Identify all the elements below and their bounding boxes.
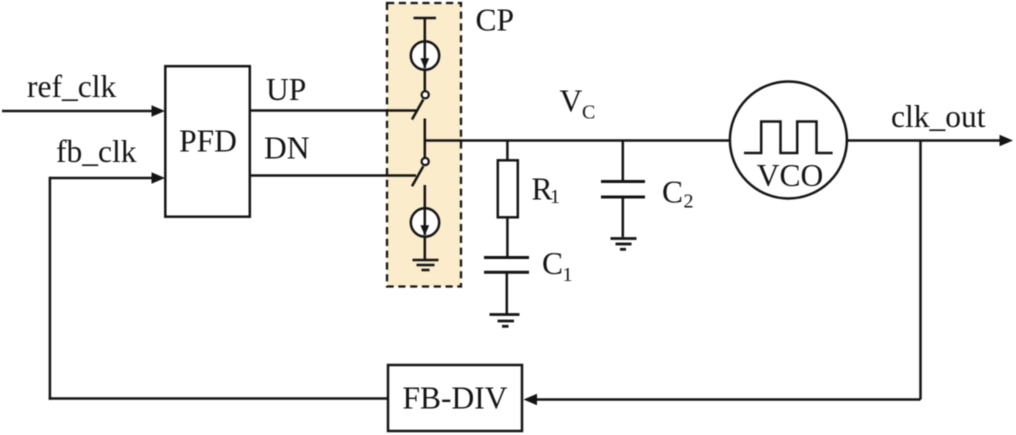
ground (C2)	[611, 239, 637, 250]
wire UP	[250, 109, 416, 112]
svg-text:V: V	[560, 84, 583, 119]
svg-text:fb_clk: fb_clk	[56, 134, 137, 169]
wire DN	[250, 174, 416, 177]
label R1	[532, 172, 561, 209]
svg-text:DN: DN	[264, 131, 310, 166]
supply rail T-bar	[414, 18, 437, 42]
svg-text:ref_clk: ref_clk	[27, 69, 116, 104]
VCO square-wave symbol	[744, 122, 833, 154]
wire feedback vertical right	[919, 141, 922, 400]
label Vc	[560, 84, 596, 124]
capacitor C1	[484, 258, 529, 273]
current source I1 (top)	[411, 41, 439, 69]
arrowhead fb_clk into PFD	[152, 172, 166, 183]
wire S1 to node / to switch S2	[424, 119, 427, 158]
wire VCO output	[847, 139, 1001, 142]
wire ref_clk input	[2, 110, 153, 113]
wire feedback bottom right into FB-DIV	[536, 398, 921, 401]
svg-text:UP: UP	[266, 72, 306, 107]
arrowhead ref_clk into PFD	[152, 105, 166, 116]
svg-text:1: 1	[550, 186, 560, 208]
svg-text:C: C	[542, 246, 563, 281]
wire I1 to switch S1	[424, 70, 427, 91]
wire C1 to ground	[506, 274, 509, 314]
wire R1 to C1	[506, 217, 509, 257]
wire S2 to current source I2	[424, 185, 427, 209]
arrowhead clk_out	[1000, 135, 1014, 146]
wire node to resistor R1	[506, 141, 509, 161]
svg-text:clk_out: clk_out	[891, 99, 986, 134]
arrowhead into FB-DIV	[524, 394, 538, 405]
VCO circle	[730, 82, 847, 199]
PFD box	[165, 66, 250, 217]
svg-text:1: 1	[563, 264, 573, 286]
label C2	[662, 175, 694, 213]
svg-text:PFD: PFD	[179, 124, 237, 159]
svg-text:2: 2	[684, 191, 694, 213]
charge pump CP dashed region	[387, 3, 461, 287]
wire node to capacitor C2	[622, 141, 625, 181]
svg-text:C: C	[582, 102, 595, 124]
switch S1 (UP)	[412, 91, 429, 119]
ground (charge pump)	[413, 260, 439, 270]
ground (C1)	[490, 315, 520, 327]
svg-text:C: C	[662, 175, 683, 210]
wire feedback bottom left	[49, 177, 388, 400]
wire I2 to ground	[424, 237, 427, 259]
svg-text:VCO: VCO	[757, 158, 824, 193]
label C1	[542, 246, 573, 286]
FB-DIV box	[388, 365, 522, 431]
wire C2 to ground	[622, 199, 625, 238]
switch S2 (DN)	[412, 158, 429, 186]
resistor R1	[498, 160, 518, 217]
current source I2 (bottom)	[411, 208, 439, 236]
capacitor C2	[601, 182, 645, 198]
wire fb_clk input	[50, 177, 153, 180]
svg-text:FB-DIV: FB-DIV	[402, 381, 507, 416]
svg-text:CP: CP	[476, 3, 515, 38]
wire Vc main node	[425, 139, 730, 142]
